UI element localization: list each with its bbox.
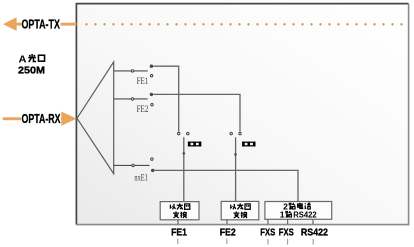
port label FXS 2 bbox=[279, 226, 294, 238]
label nxE1 bbox=[134, 173, 147, 183]
stub under ethernet switch 1 bbox=[177, 220, 179, 224]
junction dot on bank 1 drop wire bbox=[183, 152, 186, 155]
tick under FE2 bbox=[226, 239, 228, 244]
arrow OPTA-RX bbox=[3, 112, 77, 126]
label OPTA-TX bbox=[22, 18, 61, 32]
port label FE2 bbox=[220, 226, 236, 238]
svg-text:FE1: FE1 bbox=[137, 76, 149, 86]
wire FE2 selected route to switch bank 2 bbox=[153, 94, 240, 131]
switch bank 1 right contact bbox=[187, 132, 189, 134]
svg-text:FE2: FE2 bbox=[137, 104, 149, 114]
stub FXS 2 under phone unit bbox=[287, 219, 289, 224]
phone and RS422 unit box bbox=[265, 202, 332, 220]
label OPTA-RX bbox=[21, 112, 61, 126]
arrow OPTA-TX bbox=[3, 17, 77, 31]
node on FE2 pole bbox=[131, 98, 133, 100]
ethernet switch unit 1 box bbox=[160, 202, 199, 220]
tick under RS422 bbox=[312, 239, 314, 245]
switch S3 upper contact bbox=[151, 158, 153, 160]
tick under FXS 2 bbox=[287, 239, 289, 245]
wire FE2 pole bbox=[114, 98, 148, 100]
svg-text:FE1: FE1 bbox=[171, 226, 187, 238]
switch S2 lower contact bbox=[151, 104, 153, 106]
label III bank 2 bbox=[242, 142, 255, 147]
switch bank 2 right contact bbox=[239, 132, 241, 134]
svg-text:250M: 250M bbox=[18, 64, 45, 76]
tick under FE1 bbox=[177, 239, 179, 244]
svg-text:FXS: FXS bbox=[260, 226, 275, 238]
node on FE1 pole bbox=[131, 70, 133, 72]
svg-text:RS422: RS422 bbox=[301, 226, 328, 238]
label III bank 1 bbox=[188, 142, 201, 147]
switch S2 upper contact bbox=[150, 93, 152, 95]
junction dot on bank 2 drop wire bbox=[234, 153, 237, 156]
wire switch bank 1 to ethernet switch 1 bbox=[183, 137, 185, 201]
switch bank 2 left contact bbox=[230, 132, 232, 134]
wire FE1 pole bbox=[114, 70, 148, 72]
svg-text:RS422: RS422 bbox=[293, 210, 317, 219]
equipment enclosure box bbox=[76, 4, 408, 225]
svg-text:FXS: FXS bbox=[279, 226, 294, 238]
port label FE1 bbox=[171, 226, 187, 238]
stub RS422 under phone unit bbox=[312, 219, 314, 224]
svg-text:1: 1 bbox=[280, 210, 285, 219]
tick under FXS 1 bbox=[267, 239, 269, 245]
label FE2 bbox=[137, 104, 149, 114]
switch bank 1 left contact bbox=[178, 132, 180, 134]
wire FE1 selected route to switch bank 1 bbox=[153, 66, 179, 132]
switch S1 lower contact bbox=[150, 75, 152, 77]
switch S3 lower contact bbox=[152, 169, 154, 171]
switch S1 upper contact bbox=[150, 65, 152, 67]
wire nxE1 pole bbox=[114, 164, 150, 166]
dotted optical TX line bbox=[85, 23, 402, 25]
svg-text:nxE1: nxE1 bbox=[134, 173, 147, 183]
mux fanout triangle bbox=[77, 62, 114, 174]
stub under ethernet switch 2 bbox=[226, 220, 228, 224]
svg-text:OPTA-RX: OPTA-RX bbox=[22, 112, 61, 126]
wire switch bank 2 to ethernet switch 2 bbox=[235, 137, 237, 201]
port label FXS 1 bbox=[260, 226, 275, 238]
ethernet switch unit 2 box bbox=[221, 201, 259, 219]
label FE1 bbox=[137, 76, 149, 86]
svg-text:FE2: FE2 bbox=[220, 226, 236, 238]
svg-text:OPTA-TX: OPTA-TX bbox=[22, 18, 61, 32]
port label RS422 bbox=[301, 226, 328, 238]
node on nxE1 pole bbox=[132, 164, 134, 166]
label A-port 250M bbox=[18, 54, 45, 76]
wire nxE1 selected route to phone unit bbox=[154, 170, 298, 201]
stub FXS 1 under phone unit bbox=[267, 219, 269, 224]
